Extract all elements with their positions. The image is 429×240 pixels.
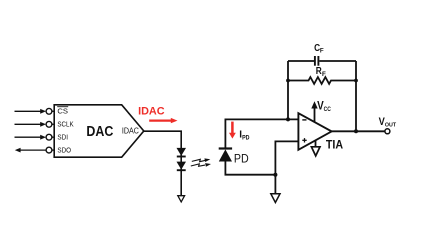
- feedback left rail: [287, 61, 289, 119]
- svg-text:CC: CC: [324, 106, 332, 113]
- output wire: [332, 130, 385, 132]
- terminal circle SDI: [46, 134, 52, 140]
- junction dot output: [354, 129, 358, 133]
- light emission arrow lower: [191, 163, 211, 167]
- ground (PD return): [271, 194, 280, 203]
- VCC supply arrow: [314, 108, 316, 122]
- wire PD top / inverting input: [225, 119, 298, 147]
- op-amp U2 TIA: [298, 113, 331, 150]
- photodiode PD: [219, 147, 232, 149]
- arrowhead SDI: [40, 135, 46, 140]
- svg-text:SDO: SDO: [57, 145, 71, 154]
- svg-text:PD: PD: [234, 152, 249, 166]
- svg-text:SCLK: SCLK: [57, 120, 73, 129]
- red current arrow IPD: [231, 122, 234, 134]
- svg-text:SDI: SDI: [57, 132, 68, 141]
- wire PD bottom to non-inverting input: [225, 161, 275, 175]
- light emission arrow upper: [192, 158, 211, 162]
- junction dot: [273, 173, 277, 177]
- svg-text:IDAC: IDAC: [138, 106, 165, 118]
- ground (LED string): [178, 196, 185, 202]
- feedback right rail: [355, 61, 357, 131]
- terminal circle SDO: [46, 147, 52, 153]
- resistor RF: [288, 77, 356, 84]
- svg-text:IDAC: IDAC: [122, 127, 139, 136]
- arrowhead SCLK: [40, 122, 46, 127]
- LED D1: [177, 148, 187, 156]
- arrowhead SDO (points left): [15, 148, 21, 153]
- svg-text:F: F: [322, 71, 326, 78]
- DAC block U1: [54, 105, 144, 157]
- minus sign: [302, 119, 306, 121]
- wire stubs circles to DAC: [50, 111, 55, 150]
- wire to ground: [274, 175, 276, 194]
- capacitor CF: [288, 56, 356, 66]
- svg-text:F: F: [320, 48, 324, 55]
- svg-text:TIA: TIA: [326, 139, 343, 151]
- wire CS input: [15, 111, 47, 150]
- wire DAC output to LED string: [144, 131, 181, 196]
- ground (op-amp): [315, 140, 317, 147]
- terminal circle CS: [46, 108, 52, 114]
- svg-text:PD: PD: [242, 134, 249, 141]
- svg-text:CS: CS: [57, 107, 68, 116]
- junction dot inverting node: [286, 117, 290, 121]
- plus sign: [302, 139, 306, 141]
- terminal circle SCLK: [46, 121, 52, 127]
- junction dot left RF: [286, 79, 290, 83]
- arrowhead CS: [40, 109, 46, 114]
- LED D2: [177, 162, 187, 170]
- svg-text:DAC: DAC: [86, 123, 113, 140]
- junction dot right RF: [354, 79, 358, 83]
- svg-text:OUT: OUT: [385, 123, 397, 129]
- terminal circle VOUT: [385, 129, 390, 134]
- red current arrow IDAC: [149, 119, 171, 121]
